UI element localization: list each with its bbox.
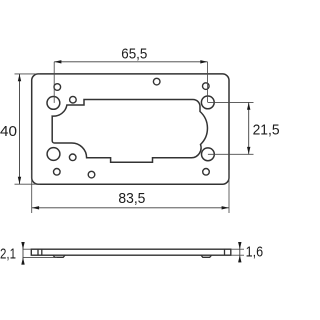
svg-text:2,1: 2,1 [0, 245, 16, 262]
hole bottom-left large [47, 148, 60, 161]
arrow 1,6 top [238, 242, 241, 249]
arrow right 65,5 [200, 60, 207, 63]
small hole C [153, 78, 160, 85]
side view left end divider 1 [37, 249, 39, 255]
dim 65,5 line [54, 61, 207, 63]
arrow 2,1 top [21, 242, 24, 249]
svg-text:21,5: 21,5 [253, 122, 280, 139]
arrow left 65,5 [54, 60, 61, 63]
dim 40 extension lines [15, 73, 41, 75]
arrow bottom 40 [18, 177, 21, 184]
svg-text:40: 40 [0, 123, 17, 140]
arrow 2,1 bottom [21, 257, 24, 264]
dim 21,5 line [248, 102, 250, 154]
plate outline top view [32, 74, 229, 184]
dim 83,5 extension lines [31, 170, 33, 213]
arrow top 21,5 [247, 103, 250, 110]
inner cutout [52, 100, 207, 163]
side view left gasket bump [53, 255, 65, 257]
arrow 1,6 bottom [238, 255, 241, 262]
dim 65,5 extension lines [53, 62, 55, 103]
dim 2,1 line [22, 242, 24, 265]
hole top-left large [47, 97, 60, 110]
small hole B [70, 96, 77, 103]
arrow right 83,5 [222, 206, 229, 209]
dim 1,6 line [239, 242, 241, 263]
dim 1,6 extension lines [231, 248, 244, 250]
small hole G [88, 171, 95, 178]
hole bottom-right large [202, 148, 215, 161]
small hole A [54, 84, 61, 91]
svg-text:83,5: 83,5 [118, 190, 145, 207]
dim 40 line [19, 74, 21, 184]
small hole F [69, 154, 76, 161]
dim 2,1 extension lines [23, 248, 32, 250]
side view right end divider [224, 249, 226, 255]
dim 83,5 line [32, 207, 229, 209]
small hole H [203, 169, 210, 176]
hole top-right large [201, 96, 214, 109]
svg-text:65,5: 65,5 [121, 45, 147, 62]
small hole E [54, 169, 61, 176]
arrow left 83,5 [32, 206, 39, 209]
side view left end divider 2 [41, 249, 43, 255]
dim 21,5 extension lines [208, 101, 254, 103]
svg-text:1,6: 1,6 [246, 244, 264, 261]
small hole D [203, 83, 210, 90]
arrow bottom 21,5 [247, 147, 250, 154]
arrow top 40 [18, 74, 21, 81]
side view right gasket bump [201, 255, 212, 257]
side view bar [31, 249, 231, 255]
